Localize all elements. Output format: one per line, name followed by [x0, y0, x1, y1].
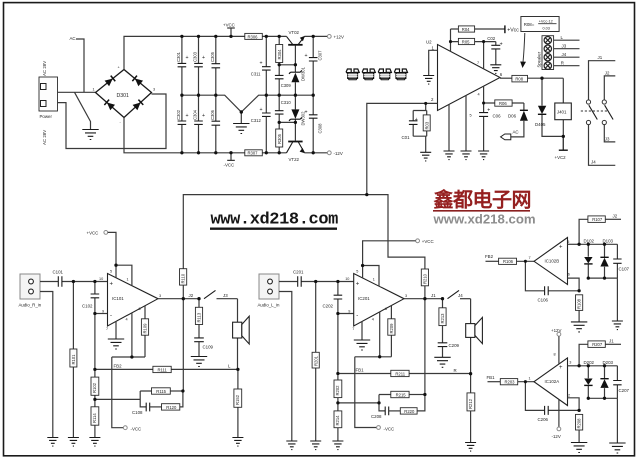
- svg-text:R102: R102: [92, 382, 97, 393]
- svg-text:-: -: [110, 313, 112, 319]
- capacitor C306: [210, 95, 220, 153]
- relay coil J401: [555, 103, 572, 120]
- svg-text:+: +: [305, 110, 308, 116]
- capacitor C108: [132, 403, 162, 415]
- ground (R208): [571, 443, 587, 453]
- svg-text:Audio_R_in: Audio_R_in: [19, 303, 42, 308]
- ground (C207 rail): [609, 443, 625, 453]
- wire C202 chain down: [337, 314, 339, 381]
- resistor R208: [576, 414, 583, 442]
- wire pin7 to ground: [115, 322, 117, 340]
- op-amp IC201: [354, 274, 404, 327]
- junction dots IC102A: [524, 364, 606, 412]
- ground (C109): [191, 357, 207, 367]
- terminal -12V (IC102A): [552, 399, 561, 439]
- resistor R209: [388, 306, 395, 357]
- svg-text:C308: C308: [318, 123, 323, 134]
- relay contact J1-J4: [586, 55, 615, 166]
- wire speaker L: [554, 39, 580, 41]
- ground (R201): [310, 441, 321, 450]
- ground (C02): [490, 65, 501, 74]
- resistor R304: [276, 36, 283, 64]
- svg-text:AC 28V: AC 28V: [42, 61, 47, 76]
- svg-text:7: 7: [529, 256, 531, 260]
- resistor R120: [162, 391, 183, 410]
- wire pin1 to ground: [429, 50, 438, 75]
- svg-text:1: 1: [529, 377, 531, 381]
- svg-text:4: 4: [478, 93, 480, 97]
- wire pin6 feedback: [568, 278, 580, 291]
- junction dots U2 section: [424, 40, 565, 138]
- wire output node down through J401: [562, 78, 564, 150]
- wire input R: [40, 281, 108, 283]
- capacitor C06: [479, 108, 501, 119]
- bottom rail continuation after R307: [262, 152, 327, 154]
- wire pin 4 stub with C06: [483, 86, 485, 151]
- svg-text:C201: C201: [293, 270, 304, 275]
- ground (C01/R03): [420, 152, 431, 161]
- power flag -VCC: [224, 153, 235, 168]
- svg-text:R305: R305: [277, 133, 282, 144]
- wire feedback FB1 line: [338, 373, 471, 375]
- capacitor C01 with resistor R03: [402, 103, 431, 152]
- net stub AC with label: [76, 39, 84, 92]
- svg-text:鑫都电子网: 鑫都电子网: [434, 188, 532, 212]
- svg-text:R307: R307: [248, 151, 259, 156]
- capacitor C304: [193, 95, 205, 153]
- resistor R207: [588, 339, 621, 348]
- resistor R106: [499, 258, 534, 264]
- wire R305 to zener chain: [279, 121, 295, 123]
- ground (R114): [89, 438, 100, 447]
- svg-text:3: 3: [153, 88, 155, 92]
- wire speaker J3: [554, 48, 580, 50]
- resistor R213: [439, 299, 446, 343]
- svg-text:J2: J2: [189, 293, 194, 298]
- svg-text:1: 1: [127, 278, 129, 282]
- ground (U2 stub b): [461, 151, 472, 160]
- svg-text:4: 4: [372, 318, 374, 322]
- svg-text:R201: R201: [313, 355, 318, 366]
- resistor R110: [180, 269, 187, 299]
- svg-text:Speaker: Speaker: [536, 51, 541, 67]
- pin labels IC201: [345, 270, 407, 332]
- svg-text:C109: C109: [203, 345, 214, 350]
- watermark red chinese text: [433, 188, 536, 227]
- ground (R108): [571, 322, 587, 332]
- wire pin4 stub (IC201): [379, 312, 381, 357]
- resistor R101: [70, 282, 77, 438]
- svg-text:+: +: [110, 282, 114, 288]
- svg-text:+12V: +12V: [334, 35, 344, 40]
- comparator IC102A: [534, 358, 568, 406]
- svg-text:5: 5: [110, 270, 112, 274]
- svg-text:+: +: [202, 55, 205, 61]
- svg-text:-: -: [356, 313, 358, 319]
- svg-text:R306: R306: [248, 34, 259, 39]
- svg-text:10: 10: [99, 277, 103, 281]
- svg-text:J1: J1: [431, 293, 436, 298]
- svg-text:R215: R215: [396, 392, 407, 397]
- svg-text:C301: C301: [176, 51, 181, 62]
- svg-text:C310: C310: [281, 100, 292, 105]
- svg-text:+VCC: +VCC: [223, 23, 235, 28]
- terminal +VCC (IC101): [87, 231, 108, 236]
- resistor R08: [512, 75, 563, 82]
- switch contact J2/J3: [189, 290, 238, 298]
- wire DC- bridge bottom to bottom rail: [124, 118, 245, 153]
- wire input L: [279, 281, 354, 283]
- svg-text:DW301: DW301: [301, 66, 306, 81]
- svg-text:R04: R04: [462, 27, 470, 32]
- svg-text:7: 7: [106, 327, 108, 331]
- svg-text:R211: R211: [395, 371, 405, 376]
- terminal -VCC (IC201): [377, 426, 395, 432]
- svg-text:C108: C108: [132, 410, 143, 415]
- resistor R214: [334, 411, 342, 441]
- connector P301 AC power input: [39, 77, 58, 111]
- capacitor C308: [305, 95, 323, 153]
- power flag +VC2: [555, 136, 568, 159]
- svg-text:R08: R08: [515, 77, 523, 82]
- power flag +VCC: [223, 23, 235, 37]
- svg-text:1: 1: [373, 278, 375, 282]
- rail top IC102B: [579, 243, 617, 245]
- svg-text:+: +: [186, 55, 189, 61]
- svg-text:R202: R202: [335, 385, 340, 396]
- svg-text:VT02: VT02: [289, 30, 300, 35]
- wire to R107: [579, 219, 588, 244]
- svg-text:C208: C208: [371, 414, 382, 419]
- wire FB1 net to R203: [488, 381, 501, 383]
- svg-text:5: 5: [470, 114, 472, 118]
- wire feedback from output L: [424, 299, 426, 395]
- svg-text:-VCC: -VCC: [131, 427, 142, 432]
- wire speaker J4: [554, 56, 580, 58]
- svg-text:U2: U2: [426, 40, 432, 45]
- resistor R212: [467, 374, 475, 443]
- net flag AC pennant: [501, 130, 519, 140]
- svg-text:C206: C206: [538, 417, 549, 422]
- op-amp U2: [426, 40, 500, 111]
- wire -VCC run (IC101): [112, 357, 145, 428]
- capacitor C106: [525, 261, 579, 302]
- svg-text:IC201: IC201: [358, 296, 370, 301]
- svg-text:R106: R106: [503, 259, 514, 264]
- ground (IC201 pin7): [354, 340, 370, 350]
- svg-text:J3: J3: [223, 293, 228, 298]
- wire speaker R: [554, 65, 580, 67]
- terminal +VCC (IC201): [416, 239, 434, 244]
- mounting screws x4: [346, 69, 359, 80]
- wire U2 pin2 detect line: [367, 103, 438, 194]
- diode D102: [584, 239, 595, 279]
- resistor R305: [276, 122, 283, 152]
- wire pin 7 from R05/C02 node: [483, 42, 485, 69]
- resistor R203: [500, 379, 534, 385]
- svg-text:C02: C02: [487, 36, 496, 41]
- svg-text:7: 7: [352, 327, 354, 331]
- power flag +Vcc: [505, 25, 519, 33]
- wire feedback from output: [182, 299, 184, 391]
- svg-text:5: 5: [567, 240, 569, 244]
- svg-text:R120: R120: [166, 405, 177, 410]
- svg-text:+: +: [260, 61, 263, 67]
- svg-text:IC102A: IC102A: [545, 379, 560, 384]
- capacitor C309: [275, 65, 291, 95]
- wire pin9 L: [338, 313, 354, 315]
- ground (conn L pin2): [286, 441, 297, 450]
- svg-text:IC101: IC101: [112, 296, 124, 301]
- svg-text:R03: R03: [424, 121, 429, 129]
- wire R304 to zener chain: [279, 64, 295, 66]
- svg-text:R101: R101: [71, 354, 76, 365]
- svg-text:R: R: [454, 368, 457, 373]
- svg-text:AC: AC: [70, 36, 76, 41]
- wire output IC101: [158, 298, 199, 300]
- dashed mechanical link: [581, 110, 609, 112]
- svg-text:6: 6: [568, 273, 570, 277]
- terminal -12V: [327, 151, 342, 156]
- svg-text:C312: C312: [251, 118, 262, 123]
- resistor R04: [451, 26, 505, 32]
- wire zobel node: [95, 391, 152, 407]
- svg-text:3: 3: [569, 361, 571, 365]
- svg-text:R214: R214: [335, 415, 340, 426]
- svg-text:3: 3: [159, 294, 161, 298]
- svg-text:+: +: [305, 53, 308, 59]
- wire pin 8 strap to R04/R05: [450, 29, 452, 51]
- junction dots IC201: [314, 264, 472, 405]
- resistor R109: [141, 306, 148, 357]
- svg-text:R109: R109: [143, 323, 148, 334]
- svg-text:+Vcc: +Vcc: [507, 27, 519, 33]
- svg-text:8: 8: [139, 307, 141, 311]
- svg-text:R304: R304: [277, 49, 282, 60]
- svg-text:+: +: [500, 42, 503, 48]
- pin labels IC102B: [529, 240, 570, 277]
- wire conn pin2 to ground: [279, 292, 292, 442]
- ground (R214): [332, 441, 343, 450]
- svg-text:Audio_L_in: Audio_L_in: [258, 303, 281, 308]
- speaker connector: [536, 36, 553, 70]
- resistor R307: [245, 150, 262, 156]
- wire output IC201: [404, 298, 443, 300]
- junction dots power supply: [180, 35, 315, 155]
- rail bottom IC102A: [588, 398, 617, 443]
- svg-text:+VC2: +VC2: [555, 155, 567, 160]
- svg-text:4: 4: [126, 318, 128, 322]
- svg-text:C311: C311: [251, 72, 261, 77]
- svg-text:C202: C202: [323, 304, 334, 309]
- svg-text:C309: C309: [281, 83, 292, 88]
- switch contact J1/J4: [431, 290, 471, 298]
- svg-text:-VCC: -VCC: [224, 163, 235, 168]
- resistor R201: [312, 282, 319, 442]
- svg-text:R05: R05: [462, 40, 470, 45]
- svg-text:J3: J3: [605, 136, 610, 141]
- svg-text:R210: R210: [423, 273, 428, 284]
- svg-text:C306: C306: [210, 109, 215, 120]
- svg-text:R115: R115: [156, 389, 166, 394]
- capacitor C102: [82, 282, 99, 314]
- svg-text:FB2: FB2: [114, 364, 123, 369]
- svg-text:10: 10: [345, 277, 349, 281]
- svg-text:0.03: 0.03: [543, 27, 550, 31]
- svg-text:VT22: VT22: [289, 157, 300, 162]
- svg-text:-VCC: -VCC: [384, 426, 395, 431]
- wire AC1 from connector to bridge node 1: [58, 91, 96, 93]
- svg-text:R208: R208: [577, 418, 582, 429]
- ground (U2 pin4): [478, 151, 489, 160]
- resistor R107: [588, 214, 621, 223]
- diode D405: [535, 78, 563, 136]
- capacitor C302: [176, 95, 189, 153]
- svg-text:J4: J4: [458, 293, 463, 298]
- svg-text:+Vcc-12: +Vcc-12: [539, 19, 553, 23]
- svg-text:C303: C303: [193, 51, 198, 62]
- svg-text:R207: R207: [592, 342, 603, 347]
- ground (C209): [434, 357, 450, 367]
- annotation arrow from formula to R08: [520, 33, 526, 68]
- ground (R101): [68, 438, 79, 447]
- ground (center tap): [240, 112, 242, 124]
- svg-text:R213: R213: [440, 313, 445, 324]
- svg-text:C302: C302: [176, 109, 181, 120]
- svg-text:FB2: FB2: [485, 254, 494, 259]
- svg-text:www.xd218.com: www.xd218.com: [433, 212, 536, 227]
- mid rail with center tap V: [182, 95, 313, 112]
- svg-text:+: +: [202, 113, 205, 119]
- pin labels IC101: [99, 270, 161, 332]
- ground (U2 pin1): [423, 76, 434, 85]
- svg-text:R111: R111: [158, 367, 168, 372]
- capacitor C109: [194, 338, 213, 357]
- svg-text:3: 3: [405, 294, 407, 298]
- diode D202: [584, 360, 595, 398]
- svg-text:R108: R108: [577, 298, 582, 309]
- svg-text:+12V: +12V: [551, 328, 561, 333]
- junction dots IC102B: [524, 243, 606, 293]
- wire ground tap diagonal from AC line: [75, 92, 91, 129]
- svg-text:J4: J4: [562, 52, 567, 57]
- svg-text:C307: C307: [318, 50, 323, 61]
- resistor R06: [484, 100, 524, 106]
- zener DW302: [289, 95, 306, 125]
- resistor R152: [234, 369, 242, 437]
- capacitor C303: [193, 36, 205, 95]
- svg-text:C209: C209: [449, 343, 460, 348]
- formula box R08: [521, 17, 559, 32]
- svg-text:D202: D202: [584, 360, 595, 365]
- rail bottom IC102B: [588, 278, 617, 321]
- resistor R114: [91, 407, 99, 438]
- diode D203: [600, 360, 613, 398]
- rail top IC102A: [579, 365, 617, 367]
- resistor R108: [576, 295, 583, 322]
- capacitor C312: [251, 95, 271, 153]
- svg-text:+: +: [559, 245, 563, 251]
- svg-text:8: 8: [554, 353, 556, 357]
- svg-text:C01: C01: [402, 135, 411, 140]
- watermark www.xd218.com black: [210, 211, 338, 230]
- wire -VCC run (IC201): [355, 357, 392, 428]
- ground (R212): [465, 443, 476, 452]
- svg-text:IC102B: IC102B: [545, 259, 560, 264]
- resistor R215: [391, 391, 425, 397]
- svg-text:R220: R220: [404, 409, 415, 414]
- transistor VT02: [287, 30, 305, 65]
- ground (U2 stub a): [444, 151, 455, 160]
- svg-text:-12V: -12V: [552, 434, 561, 439]
- top rail continuation after R306: [262, 35, 327, 37]
- resistor R102: [91, 314, 99, 407]
- resistor R113: [195, 299, 202, 338]
- svg-text:J3: J3: [562, 43, 567, 48]
- capacitor C305: [210, 36, 220, 95]
- svg-text:R08=: R08=: [524, 22, 535, 27]
- resistor R202: [334, 380, 342, 411]
- ground (C107 rail): [612, 321, 623, 330]
- svg-text:9: 9: [102, 310, 104, 314]
- ground (conn R pin2): [47, 438, 58, 447]
- ground (AC input): [82, 130, 98, 140]
- wire U2 output pin 6: [500, 77, 512, 79]
- capacitor C107: [613, 244, 629, 278]
- wire AC2 from connector to bridge node 3: [58, 94, 167, 149]
- svg-text:C101: C101: [53, 270, 64, 275]
- svg-text:FB1: FB1: [487, 375, 496, 380]
- svg-text:+VCC: +VCC: [422, 239, 434, 244]
- speaker R channel: [233, 299, 250, 370]
- svg-text:D301: D301: [117, 93, 130, 99]
- svg-text:-12V: -12V: [334, 151, 343, 156]
- resistor R306: [245, 33, 262, 39]
- svg-text:5: 5: [356, 270, 358, 274]
- diode D06: [508, 103, 528, 137]
- svg-text:2: 2: [568, 394, 570, 398]
- capacitor C201: [293, 270, 304, 287]
- capacitor C101: [53, 270, 64, 287]
- svg-text:C06: C06: [493, 114, 502, 119]
- comparator IC102B: [534, 238, 568, 285]
- svg-text:+: +: [415, 117, 418, 123]
- svg-text:+: +: [186, 113, 189, 119]
- capacitor C311: [251, 36, 271, 95]
- wire feedback FB2 line: [95, 368, 238, 370]
- wire pin4 stub: [131, 313, 133, 357]
- resistor R05: [451, 38, 496, 44]
- svg-text:FB1: FB1: [356, 368, 365, 373]
- transistor VT22: [287, 122, 305, 162]
- svg-text:+VCC: +VCC: [87, 231, 99, 236]
- connector Audio_R_in: [19, 274, 42, 308]
- ground (R152): [232, 438, 243, 447]
- wire zobel node L: [338, 395, 391, 411]
- svg-text:D06: D06: [508, 114, 517, 119]
- terminal +12V: [327, 35, 344, 40]
- capacitor C301: [176, 36, 189, 95]
- op-amp IC101: [108, 274, 159, 327]
- capacitor C207: [613, 366, 629, 399]
- relay contact J2-J3: [602, 70, 615, 142]
- svg-text:C304: C304: [193, 109, 198, 120]
- svg-text:C207: C207: [619, 388, 630, 393]
- capacitor C307: [305, 36, 323, 95]
- wire DC offset detect bus: [183, 195, 425, 269]
- svg-text:R107: R107: [592, 217, 603, 222]
- wire +VCC to pins 5 and 1 (IC201): [363, 241, 416, 286]
